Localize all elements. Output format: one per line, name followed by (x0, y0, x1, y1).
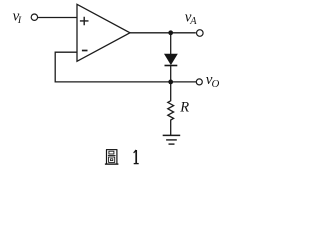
svg-text:I: I (17, 15, 22, 26)
svg-text:O: O (212, 78, 220, 90)
svg-text:A: A (189, 16, 197, 27)
svg-text:R: R (179, 100, 189, 116)
